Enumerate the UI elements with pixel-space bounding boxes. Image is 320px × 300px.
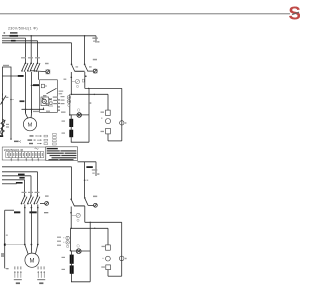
- wire L (line) label: [10, 32, 18, 33]
- connector arrows group 2: [37, 266, 45, 284]
- motor common wire b: [5, 244, 25, 246]
- node on heater branch b: [4, 244, 6, 246]
- wire N2: [2, 38, 26, 63]
- PCB side labels: [59, 91, 64, 95]
- fan motor box FM2: [102, 245, 111, 250]
- diagonal tap wire: [47, 88, 57, 94]
- monitor link wire b: [75, 205, 85, 207]
- label C7b: [45, 195, 49, 196]
- turntable motor TM1: [101, 118, 110, 124]
- fan column bottom b: [107, 270, 109, 277]
- interlock fuse C7 (circle with slash): [46, 70, 50, 74]
- interlock fuse C7b: [45, 202, 49, 206]
- node on left branch: [10, 99, 14, 101]
- door switch S3b: [34, 192, 40, 205]
- connector row 3: [29, 143, 48, 145]
- wire S2 bottom drop: [31, 72, 33, 113]
- door switch S2b: [27, 192, 33, 205]
- wire to interlock fuse: [30, 71, 46, 72]
- thermostat TH1: [1, 94, 9, 105]
- door switch S1: [21, 57, 28, 72]
- terminal table arrows: [11, 158, 39, 161]
- magnetron MGT2: [66, 228, 71, 250]
- fan loop bottom wire: [108, 140, 122, 142]
- wire H with name: [2, 177, 25, 196]
- monitor switch S4b: [70, 198, 74, 206]
- wire under note box to N2: [78, 161, 97, 163]
- primary switch S5b: [84, 197, 88, 205]
- wire S3 bottom drop: [38, 72, 40, 80]
- fan cap FC1: [120, 121, 127, 125]
- HV transformer secondary bar b: [62, 265, 74, 273]
- terminal table: [2, 147, 46, 160]
- S5 drop wire: [84, 72, 86, 89]
- label C7: [45, 63, 49, 64]
- timer box T2: [101, 265, 110, 270]
- svg-text:230V/50Hz(1 Φ): 230V/50Hz(1 Φ): [8, 26, 38, 30]
- S1b drop: [24, 204, 26, 244]
- node below S4: [71, 77, 73, 79]
- motor M1: [23, 118, 36, 131]
- motor M1 feeds: [26, 109, 32, 118]
- motor supply wire: [22, 109, 45, 111]
- far right drop: [121, 88, 123, 140]
- warning note box: [46, 147, 78, 161]
- heater branch end: [5, 268, 9, 269]
- wire J1 to fan column: [71, 94, 108, 95]
- left heater branch b: [5, 210, 14, 268]
- oven lamp OL1: [77, 109, 82, 118]
- connector arrows group 1: [14, 266, 22, 284]
- wire tag below: [33, 111, 50, 113]
- transformer column wire: [70, 115, 72, 142]
- S5b bottom drop: [84, 206, 86, 222]
- logo (red oval, clipped at right edge): [289, 3, 301, 24]
- HV transformer primary bar b: [62, 255, 74, 264]
- motor M2 feed slants: [25, 245, 38, 255]
- fan branch wire top: [85, 88, 122, 89]
- wire with name to S1 bottom: [2, 75, 24, 77]
- timer box T1: [101, 128, 111, 134]
- magnetron labels b: [57, 237, 64, 246]
- right loop wire b: [89, 222, 91, 281]
- node S3b bottom: [37, 207, 39, 209]
- svg-text:S: S: [289, 3, 301, 24]
- heater terminal mark: [0, 135, 3, 137]
- terminal table cells: [6, 152, 44, 158]
- wire name on drop: [20, 100, 25, 102]
- page header rule: [0, 13, 290, 15]
- thermal cutout TCO1: [71, 80, 79, 88]
- fan column drop: [107, 94, 109, 110]
- bottom loop wire: [71, 141, 89, 143]
- label A1b: [93, 196, 97, 198]
- terminal cell marks: [7, 153, 43, 156]
- relay box bottom stub: [43, 108, 45, 110]
- S2b drop: [30, 204, 32, 244]
- HV transformer primary bar: [62, 119, 74, 127]
- node S1b bottom: [24, 207, 26, 209]
- monitor link wire: [75, 70, 85, 72]
- primary switch S5: [84, 63, 92, 71]
- fuse lamp A1: [93, 69, 97, 73]
- svg-text:M: M: [28, 122, 33, 128]
- S3b drop: [37, 204, 39, 244]
- fan column bottom: [107, 134, 109, 141]
- node N terminal: [92, 36, 99, 43]
- turntable motor TM2: [102, 256, 110, 261]
- connector pin header: [53, 133, 57, 145]
- motor M2: [25, 253, 39, 267]
- node J2: [70, 227, 72, 229]
- HV transformer secondary bar: [62, 130, 74, 138]
- thermal cutout TCO2: [71, 213, 80, 221]
- label A1: [93, 59, 97, 61]
- bottom loop wire b: [71, 281, 90, 283]
- magnetron column wire b: [70, 207, 72, 229]
- motor M2 feed nodes: [24, 244, 39, 246]
- connector left tag: [14, 140, 21, 142]
- wire S5 feeder: [84, 36, 86, 64]
- wire name near S5b drop: [86, 166, 92, 168]
- node lamp tap b: [70, 250, 72, 252]
- magnetron MGT1: [67, 94, 70, 115]
- small part tag: [82, 79, 84, 82]
- node J1: [71, 94, 73, 96]
- door switch S1b: [21, 192, 27, 205]
- S5b feeder drop: [84, 162, 88, 198]
- fan motor box FM1: [101, 110, 111, 115]
- node lamp tap: [69, 114, 71, 116]
- relay PCB box U1: [40, 80, 58, 113]
- heater branch tags: [1, 253, 4, 256]
- door switch S3: [34, 57, 40, 72]
- node S5 feed: [84, 35, 86, 37]
- wire L: [2, 35, 96, 37]
- left branch end node: [10, 138, 12, 140]
- fan column drop b: [107, 228, 109, 245]
- relay PCB labels: [53, 97, 58, 105]
- wire to lamp A1b: [88, 204, 93, 206]
- wire G with name: [2, 174, 31, 196]
- connector row 1: [30, 135, 48, 137]
- wire E: [2, 167, 72, 199]
- left branch top bar: [3, 65, 12, 139]
- wire to lamp A1: [88, 70, 93, 72]
- PCB pin marks: [58, 99, 60, 110]
- magnetron labels: [61, 96, 66, 113]
- far right drop b: [121, 222, 123, 276]
- node below S4b: [70, 212, 72, 214]
- node N2 terminal: [92, 162, 100, 176]
- door switch S2: [27, 57, 34, 72]
- wire to fuse C7b: [40, 202, 45, 204]
- connector row 2: [28, 139, 48, 141]
- node L tick: [4, 32, 6, 33]
- magnetron column upper wire: [70, 72, 72, 94]
- fan branch wire top b: [85, 222, 122, 223]
- S5 bottom node: [85, 75, 87, 77]
- svg-text:230V/50Hz(1 Φ): 230V/50Hz(1 Φ): [4, 148, 24, 152]
- wire S2 tap into PCB: [31, 84, 40, 86]
- fuse lamp A1b: [94, 203, 98, 207]
- switch name labels: [14, 211, 48, 213]
- wire J2 to fan column b: [71, 228, 108, 229]
- monitor switch S4: [71, 63, 78, 71]
- wire S1 bottom drop: [25, 72, 27, 113]
- oven lamp wire: [70, 114, 89, 116]
- fan loop bottom wire b: [108, 275, 122, 277]
- wire 3 with label: [2, 40, 38, 63]
- oven lamp wire b: [71, 250, 91, 252]
- wire F: [2, 172, 38, 196]
- wire L name label: [10, 35, 19, 37]
- label a2: [64, 79, 67, 80]
- oven lamp OL2: [76, 245, 81, 254]
- right loop wire: [89, 88, 91, 142]
- transformer column wire b: [70, 251, 72, 282]
- heater element H1: [0, 119, 9, 135]
- svg-text:M: M: [30, 259, 35, 265]
- node S2b bottom: [31, 207, 33, 209]
- node A junction drop: [30, 35, 32, 63]
- wire 4 to right switch group: [2, 43, 72, 64]
- wire I with name: [2, 182, 23, 184]
- fan cap FC2: [119, 256, 126, 261]
